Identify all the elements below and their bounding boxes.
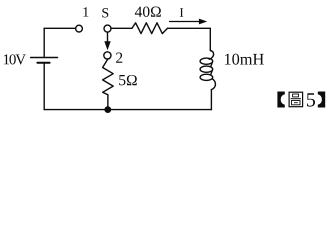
wire right rail upper: corner down to inductor top <box>209 28 211 50</box>
caption figure 5: left lenticular bracket <box>277 92 284 108</box>
switch pole circle S <box>104 25 111 32</box>
label 10V <box>4 54 26 64</box>
resistor R2 5-ohm vertical zigzag <box>103 59 114 95</box>
wire bottom rail <box>44 109 211 111</box>
wire right rail lower: inductor bottom to bottom rail <box>210 90 212 110</box>
current arrow I line <box>170 21 200 23</box>
wire top rail: resistor to top-right corner <box>168 27 211 29</box>
resistor R1 40-ohm zigzag <box>132 23 168 34</box>
switch arrow head <box>104 41 110 50</box>
inductor L1 exit hook <box>211 79 215 90</box>
wire top-left: corner to switch contact 1 <box>44 27 75 29</box>
label 40-ohm <box>135 6 161 16</box>
junction dot <box>104 106 111 113</box>
current arrow head <box>199 19 207 25</box>
inductor L1 connector 2-3 <box>211 71 212 75</box>
inductor L1 loop 1 <box>200 58 213 64</box>
label 2 <box>116 53 122 63</box>
inductor L1 loop 2 <box>200 66 213 72</box>
label I <box>180 8 183 17</box>
wire 5-ohm resistor to junction <box>107 95 109 110</box>
inductor L1 entry hook <box>209 51 213 60</box>
wire left rail lower: battery bottom down to bottom rail <box>43 64 45 110</box>
caption figure 5: character tu (traditional chinese 'figure') <box>289 92 303 107</box>
label 1 <box>83 7 88 16</box>
switch arrow shaft S to 2 <box>107 32 109 43</box>
battery V1 bottom plate (short, -) <box>37 62 49 64</box>
label 10mH <box>225 54 264 65</box>
label S <box>102 8 108 17</box>
battery V1 top plate (long, +) <box>31 57 58 59</box>
caption figure 5: right lenticular bracket <box>318 92 325 108</box>
caption figure 5: digit 5 <box>307 93 315 106</box>
inductor L1 connector 1-2 <box>211 63 212 66</box>
label 5-ohm <box>119 75 137 85</box>
switch contact circle 2 <box>104 52 111 59</box>
wire left rail upper: corner down to battery top plate <box>43 28 45 57</box>
wire top rail: switch S to 40-ohm resistor <box>111 27 132 29</box>
inductor L1 loop 3 <box>200 74 213 80</box>
switch contact circle 1 <box>76 25 83 32</box>
